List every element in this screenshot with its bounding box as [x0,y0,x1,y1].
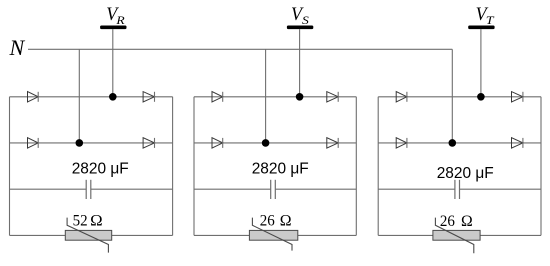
wire left edge block 3 [377,97,379,236]
junction dot VS/row1 [296,93,304,101]
diode D11 [28,92,39,102]
wire bottom row block 2 [194,234,356,236]
diode D32 [512,92,523,102]
junction dot VT/row1 [477,93,485,101]
wire bottom row block 3 [378,234,541,236]
resistor R1 wiper diagonal [67,218,108,253]
diode D21 [212,92,223,102]
terminal VT bar [468,26,494,30]
svg-text:R: R [115,13,125,27]
diode D12 [143,92,154,102]
resistor R2 body [249,230,297,240]
wire N drop to phase S block [265,49,267,143]
diode D22 [327,92,338,102]
resistor R2 wiper diagonal [252,218,292,251]
diode D33 [396,138,407,148]
wire VR drop [112,29,114,97]
wire left edge block 1 [9,97,11,236]
diode D24 [327,138,338,148]
svg-text:S: S [302,13,309,27]
svg-text:Ω: Ω [461,213,473,230]
wire right edge block 2 [355,97,357,236]
svg-text:26: 26 [260,212,275,229]
wire cap row left block 1 [10,188,87,190]
wire VS drop [299,29,301,97]
wire VT drop [480,29,482,97]
junction dot N/row2 [76,139,84,147]
svg-text:26: 26 [440,213,455,230]
wire N bus [28,48,452,50]
junction dot VR/row1 [109,93,117,101]
wire row1 block 1 [10,96,173,98]
wire left edge block 2 [193,97,195,236]
wire right edge block 1 [172,97,174,236]
svg-text:52: 52 [73,213,88,230]
wire row1 block 3 [378,96,541,98]
resistor R3 body [433,230,480,240]
wire row2 block 3 [378,142,541,144]
capacitor C1 [86,180,91,199]
wire cap row right block 3 [460,188,542,190]
svg-text:N: N [9,35,26,60]
diode D31 [396,92,407,102]
svg-text:Ω: Ω [90,213,103,230]
junction dot N/row2 [262,139,270,147]
wire cap row left block 3 [378,188,455,190]
wire N drop to phase R block [78,49,80,143]
svg-text:2820 μF: 2820 μF [72,161,129,178]
wire cap row right block 1 [91,188,173,190]
terminal VR bar [100,26,126,30]
terminal VS bar [287,26,313,30]
diode D13 [28,138,39,148]
wire bottom row block 1 [10,234,173,236]
capacitor C2 [271,180,276,199]
wire cap row left block 2 [194,188,271,190]
resistor R3 wiper diagonal [435,218,473,254]
wire row1 block 2 [194,96,356,98]
diode D23 [212,138,223,148]
capacitor C3 [455,180,460,199]
svg-text:Ω: Ω [280,212,292,229]
wire row2 block 1 [10,142,173,144]
wire row2 block 2 [194,142,356,144]
diode D14 [143,138,154,148]
wire right edge block 3 [540,97,542,236]
diode D34 [512,138,523,148]
resistor R1 body [65,230,111,240]
wire cap row right block 2 [275,188,356,190]
junction dot N/row2 [449,139,457,147]
svg-text:2820 μF: 2820 μF [252,161,309,178]
svg-text:2820 μF: 2820 μF [437,165,494,182]
wire N drop to phase T block [451,49,453,143]
